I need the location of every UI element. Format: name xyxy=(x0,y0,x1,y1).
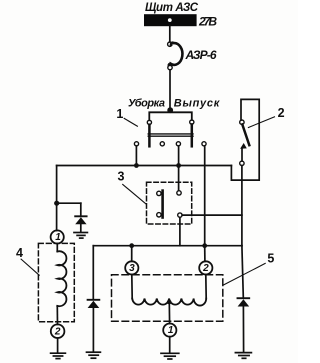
wire: coil to pin 2 xyxy=(56,306,58,325)
svg-text:1: 1 xyxy=(168,325,174,336)
junction: lower bus / terminal d drop xyxy=(202,243,207,248)
leader line for label 3 xyxy=(123,184,147,204)
switch S1 right blade xyxy=(191,124,194,146)
junction: switch 1 common node xyxy=(167,107,173,113)
limit switch 2 actuator arrow xyxy=(240,143,247,149)
wire: left drop of main bus xyxy=(56,166,58,231)
circuit breaker АЗР-6 bottom terminal xyxy=(168,65,172,69)
wire: pin 2 into winding xyxy=(205,275,207,299)
ground for transformer xyxy=(161,353,179,359)
wire: junction to diode VD1 xyxy=(57,202,81,204)
switch terminal a xyxy=(134,142,138,146)
switch terminal d xyxy=(202,142,206,146)
transformer pin 3 (circled) xyxy=(125,261,138,274)
wire: relay bottom terminal to limit switch drop xyxy=(182,214,242,216)
switch terminal b xyxy=(160,142,164,146)
svg-text:1: 1 xyxy=(55,232,61,243)
junction: lower bus / transformer pin 3 xyxy=(129,243,134,248)
diode VD1 (top left) xyxy=(75,203,86,232)
leader line for label 1 xyxy=(124,118,137,126)
circuit breaker АЗР-6 arc xyxy=(169,43,182,65)
wire: pin 1 to ground xyxy=(169,337,171,353)
switch S1 right pole contact xyxy=(190,120,194,124)
junction: bus / diode VD1 branch xyxy=(54,201,59,206)
svg-text:Щит АЗС: Щит АЗС xyxy=(145,2,199,14)
wire: pin 1 to coil xyxy=(56,244,58,252)
svg-text:Выпуск: Выпуск xyxy=(174,98,221,110)
ground for coil unit xyxy=(51,353,66,358)
transformer pin 1 (circled) xyxy=(163,324,176,337)
wire: terminal c down to relay contact xyxy=(178,146,180,191)
wire: terminal d down to lower bus xyxy=(204,146,206,246)
svg-text:27В: 27В xyxy=(198,15,217,29)
relay terminal bottom-right xyxy=(178,213,182,217)
limit switch 2 top contact xyxy=(240,120,244,124)
svg-text:1: 1 xyxy=(116,107,123,121)
transformer winding xyxy=(132,299,206,306)
wire: main horizontal bus xyxy=(57,165,232,167)
relay terminal top-right xyxy=(177,191,181,195)
circuit breaker АЗР-6 top terminal xyxy=(168,42,172,46)
ground for diode VD2 xyxy=(87,352,101,358)
coil unit pin 2 (circled) xyxy=(51,324,65,338)
wire: terminal a down to main bus xyxy=(135,146,137,166)
coil unit pin 1 (circled) xyxy=(51,230,64,243)
switch terminal c xyxy=(176,142,180,146)
svg-text:5: 5 xyxy=(267,251,274,265)
wire: lower bus to transformer pin 3 xyxy=(131,246,133,262)
svg-text:4: 4 xyxy=(16,246,23,260)
switch S1 left blade xyxy=(148,125,151,147)
switch S1 left pole contact xyxy=(147,120,151,124)
bus bar (panel АЗС) xyxy=(144,14,197,26)
switch S1 (item 1) frame: top bar and side stems xyxy=(149,112,192,120)
wire: breaker to switch 1 common xyxy=(169,70,171,109)
diode VD2 (middle) xyxy=(88,246,100,352)
svg-text:2: 2 xyxy=(278,106,285,120)
wire: relay bottom terminal down to lower bus xyxy=(179,217,181,245)
leader line for label 5 xyxy=(224,263,265,284)
ground for diode VD3 xyxy=(235,353,251,359)
junction: terminal c / bus xyxy=(176,163,181,168)
relay contact fixed bottom-left xyxy=(157,213,161,217)
svg-text:3: 3 xyxy=(129,263,135,274)
wire: centre tap to pin 1 xyxy=(168,302,170,324)
svg-text:2: 2 xyxy=(54,326,61,337)
ground for diode VD1 xyxy=(74,233,87,239)
relay contact fixed top-left xyxy=(157,191,161,195)
limit switch 2 bottom contact xyxy=(240,161,244,165)
relay contact blade xyxy=(161,191,164,218)
limit switch 2 actuator stem xyxy=(241,149,243,161)
wire: lower horizontal bus xyxy=(93,245,242,247)
relay box 3 (dashed) xyxy=(147,182,192,224)
transformer pin 2 (circled) xyxy=(199,261,212,274)
switch S1 bridge bars xyxy=(148,134,193,136)
limit switch 2 blade xyxy=(242,124,249,145)
limit switch 2 body (rectangle with feed wire) xyxy=(231,99,259,180)
wire: bus bar to breaker xyxy=(169,26,171,42)
transformer box 5 (dashed) xyxy=(112,275,223,322)
wire: pin 2 to ground xyxy=(57,338,59,353)
junction: winding centre tap xyxy=(167,300,172,305)
junction: terminal a / bus xyxy=(134,163,139,168)
wire: limit switch bottom contact down xyxy=(241,166,243,246)
coil box 4 (dashed) xyxy=(38,243,74,321)
wire: pin 3 into winding xyxy=(131,275,133,299)
svg-text:3: 3 xyxy=(118,169,125,183)
svg-text:2: 2 xyxy=(202,263,209,274)
leader line for label 2 xyxy=(248,117,274,128)
svg-text:АЗР-6: АЗР-6 xyxy=(185,48,217,62)
coil L1 winding xyxy=(57,251,66,306)
wire: junction d to transformer pin 2 xyxy=(204,246,206,262)
svg-text:Уборка: Уборка xyxy=(128,98,165,110)
diode VD3 (right) xyxy=(238,246,250,353)
leader line for label 4 xyxy=(21,259,39,275)
